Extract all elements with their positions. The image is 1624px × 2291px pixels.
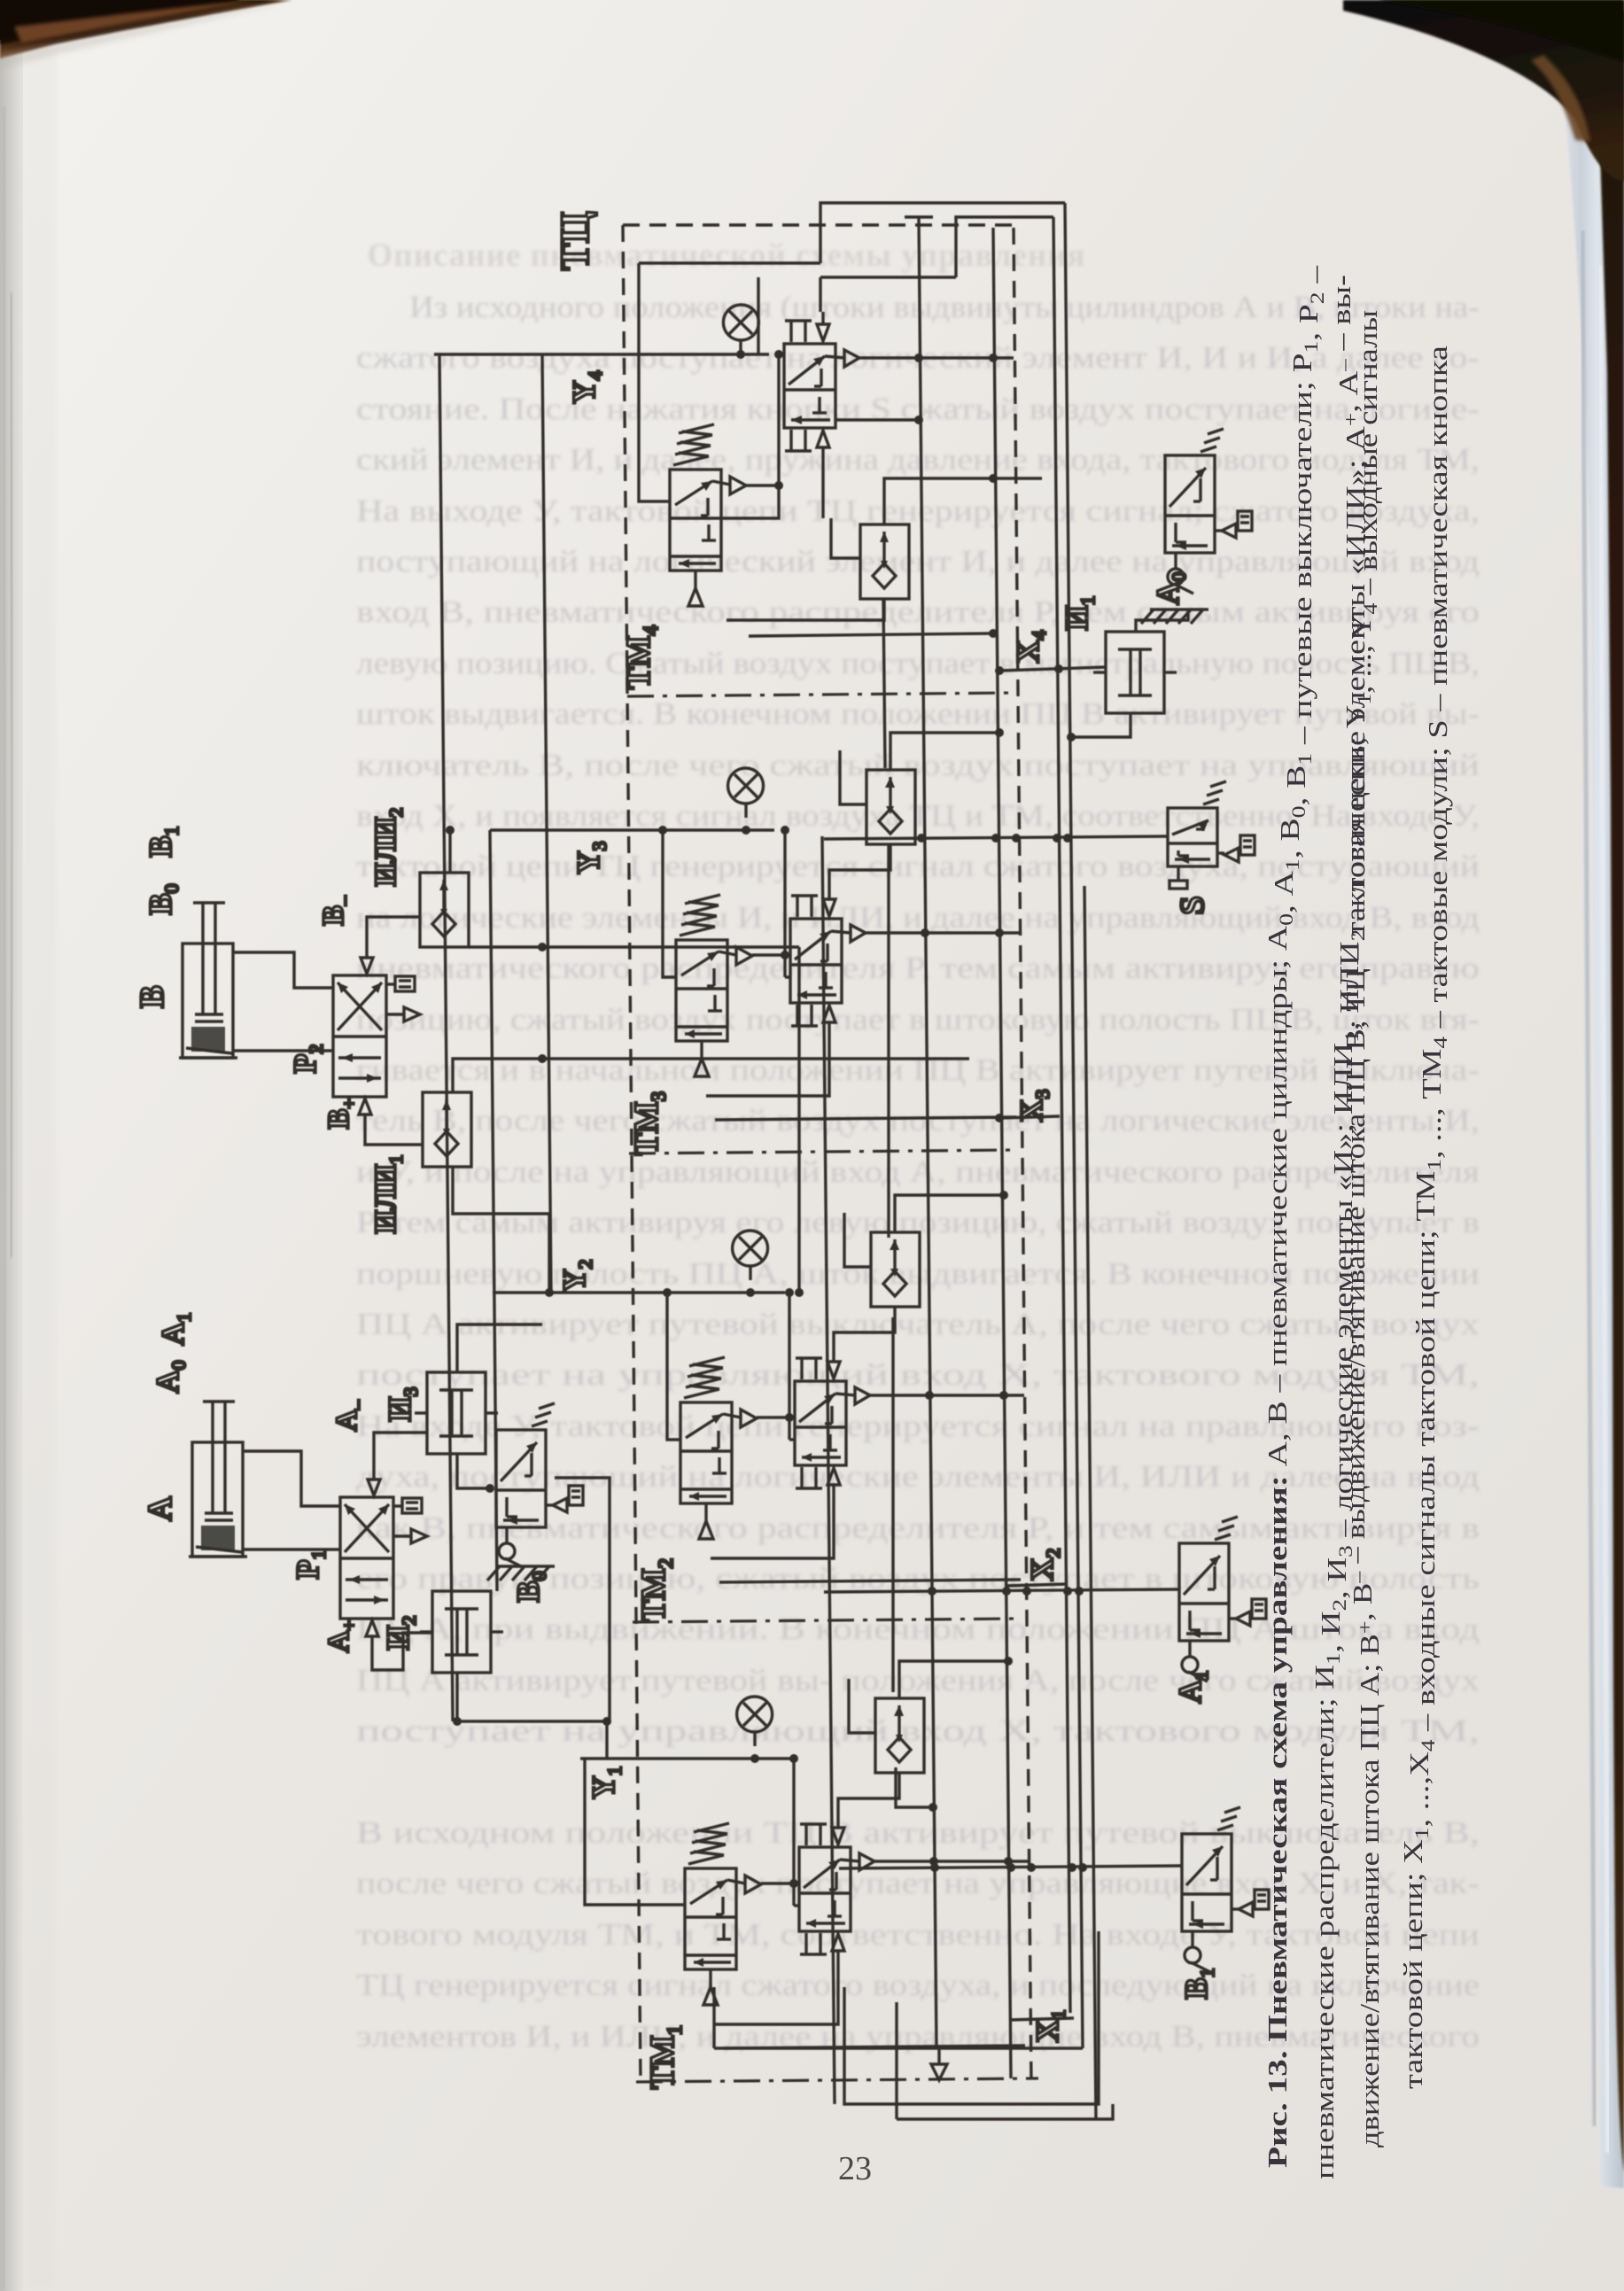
valve TM2 pilot 3/2 (795, 1381, 846, 1465)
svg-text:А: А (142, 1496, 179, 1521)
wire TM4 shuttle top (884, 478, 1042, 524)
top-left wood corner (0, 0, 292, 58)
wire bottom rail 2 (844, 1931, 1099, 2104)
wire ILI2 top (448, 830, 451, 873)
wire module separator TM4/TM3 (627, 693, 1038, 2082)
wire TM3 shuttle bottom to pilot (829, 844, 890, 887)
wire TM3 sv to pv mid (785, 975, 790, 978)
wire B1 link (839, 1866, 1182, 1868)
svg-text:ПЦ А, при выдвижении. В конечн: ПЦ А, при выдвижении. В конечном положен… (356, 1611, 1480, 1646)
ground A0 (1150, 608, 1208, 610)
wire S link (824, 836, 1168, 839)
wire B-plus pilot (365, 1127, 423, 1145)
node Y3 output line (490, 828, 774, 831)
valve TM3 spring 3/2 (676, 940, 727, 1041)
wire TM2 shuttle left (844, 1213, 871, 1267)
wire TM2 sv to pv mid (789, 1438, 795, 1441)
wire B0 riser (555, 1478, 610, 1721)
wire TM3 sv feed (663, 830, 676, 977)
AND element I2 (432, 1591, 491, 1673)
wire TM2 pv bottom pilot drop (711, 1499, 834, 1558)
top-right dark corner block (1343, 0, 1624, 182)
wire TM1 shuttle top (899, 1661, 1008, 1698)
wire bus v2 (490, 830, 497, 1591)
wire TM4 vert (721, 354, 779, 518)
wire TM1 bottom rail (724, 2046, 1025, 2048)
wire ILI2 down bus (797, 947, 800, 1293)
wire module separator TM3/TM2 (629, 1150, 1017, 1153)
wire A-minus pilot (374, 1433, 427, 1467)
wire TM4 bottom rail (749, 633, 993, 636)
svg-text:поступает на управляющий вход: поступает на управляющий вход Х, тактово… (356, 1357, 1480, 1392)
wire bus module column (919, 217, 936, 2048)
left page edge strip (0, 0, 23, 2291)
wire bottom rail 3 (937, 2048, 940, 2064)
wire TM1 sv out arrow (761, 1882, 794, 1884)
right blue page-edges strip (1558, 53, 1624, 2188)
wire A0 to I1 (1136, 611, 1188, 632)
svg-text:В: В (134, 985, 171, 1007)
cylinder B (183, 944, 233, 1058)
wire cyl A top port (243, 1451, 340, 1506)
wire bottom rail 1 (714, 2046, 1083, 2049)
wire TM1 sv to pv mid (794, 1904, 799, 1907)
wire TM4 pv out (859, 356, 1014, 359)
wire TM4 shuttle left (831, 518, 860, 558)
wire TM4 pv mid (836, 418, 919, 421)
wire TM2 shuttle top (895, 1195, 1004, 1232)
wire cyl B bottom port (233, 1049, 333, 1052)
wire X4 link (999, 667, 1106, 671)
svg-text:на логические элементы И, и ИЛ: на логические элементы И, и ИЛИ, и далее… (356, 900, 1480, 935)
wire X1 link (1010, 2018, 1074, 2020)
wire ILI2 out right (469, 945, 799, 948)
wire TM4 pv bottom riser (821, 462, 824, 518)
svg-text:пневматического распределителя: пневматического распределителя Р, тем са… (356, 951, 1480, 985)
wire I3 bottom (457, 1454, 490, 1488)
svg-text:ИЛИ1: ИЛИ1 (369, 1155, 407, 1234)
wire module separator TM2/TM1 (633, 1619, 1021, 1622)
wire shuttle chain 2-1 (891, 1317, 894, 1692)
roller B1 (1191, 1931, 1193, 1947)
wire TM3 vertical drop (783, 830, 786, 977)
lamp indicator Y3 (728, 768, 764, 804)
svg-text:и У, и после на управляющий вх: и У, и после на управляющий вход А, пнев… (356, 1154, 1480, 1189)
wire I2 bottom hook (457, 1673, 610, 1721)
wire Y1 riser (605, 1721, 608, 1759)
valve TM3 pilot 3/2 (790, 919, 842, 1003)
node Y4 output line (434, 353, 769, 355)
lamp indicator Y4 (723, 305, 758, 340)
wire A-plus pilot (372, 1633, 432, 1670)
ground B0 (496, 1565, 555, 1567)
wire TM3 pv out (866, 931, 1020, 934)
svg-text:тактовой цепи ТЦ генерируется: тактовой цепи ТЦ генерируется сигнал сжа… (356, 849, 1480, 883)
valve TM2 spring 3/2 (680, 1402, 732, 1503)
button S actuator (1177, 866, 1179, 881)
node Y1 output line (580, 1757, 794, 1759)
wire bottom drop 2 (895, 2002, 897, 2119)
svg-text:Описание пневматической схемы: Описание пневматической схемы управления (367, 237, 1085, 274)
roller A1 (1188, 1641, 1191, 1657)
wire TM2 shuttle bottom to pilot (834, 1307, 895, 1349)
wire tact-chain outer top (820, 203, 1065, 263)
wire cyl A bottom port (243, 1548, 340, 1550)
wire I1 bottom (1071, 713, 1131, 737)
valve A0 limit switch (1165, 455, 1215, 553)
svg-text:Р, тем самым активируя его лев: Р, тем самым активируя его левую позицию… (356, 1205, 1480, 1239)
OR element ILI2 (420, 873, 469, 947)
wire cyl B top port (233, 952, 333, 988)
exhaust triangle bottom (931, 2064, 947, 2080)
wire bus feedback column (822, 836, 835, 2104)
node TC dashed boundary (623, 225, 1031, 2084)
wire TM3 shuttle top (890, 733, 999, 770)
valve TM4 pilot 3/2 (784, 344, 835, 428)
right dark brown book edge (1559, 11, 1624, 2172)
distributor P1 4/2 (340, 1497, 393, 1619)
AND element I3 (427, 1372, 486, 1454)
wire I3 top (457, 1324, 542, 1372)
wire bus column 2 (993, 228, 1011, 2078)
valve B1 limit switch (1182, 1834, 1232, 1931)
wire A1 link (824, 1589, 1179, 1592)
subtle left vignette (21, 0, 57, 2291)
wire bottom rail 4 (897, 2104, 1113, 2119)
wire TM3 sv out arrow (752, 953, 785, 956)
lamp indicator Y1 (737, 1697, 773, 1732)
shuttle valve TM4 (860, 524, 909, 599)
wire ILI1 top (453, 1059, 969, 1092)
svg-text:тель В, после чего сжатый возд: тель В, после чего сжатый воздух поступа… (356, 1103, 1480, 1138)
wire bus v3 (542, 354, 551, 1293)
OR element ILI1 (423, 1092, 471, 1167)
wire TM3 shuttle left (840, 750, 866, 804)
wire shuttle chain 1-out (896, 1767, 933, 1807)
wire TM2 vertical drop (788, 1293, 790, 1440)
svg-text:поршневую полость ПЦ А, шток в: поршневую полость ПЦ А, шток выдвигается… (356, 1256, 1480, 1291)
wire TM1 shuttle bottom to pilot (838, 1773, 899, 1815)
wire TM2 sv feed (667, 1293, 680, 1440)
wire tact-chain inner top (956, 217, 1053, 277)
wire B-minus pilot (367, 917, 420, 945)
wire ILI1 bottom (453, 1167, 549, 1293)
AND element I1 (1106, 632, 1164, 713)
wire TM3 bottom rail (715, 1117, 1016, 1120)
wire TM1 pv out (874, 1860, 1029, 1862)
roller B0 (505, 1527, 508, 1543)
wire bus right outer low (1084, 886, 1096, 2119)
node Y2 output line (493, 1291, 785, 1293)
cylinder A (192, 1442, 243, 1557)
wire bottom left drop (712, 1987, 715, 2048)
roller A0 (1174, 553, 1177, 569)
svg-text:23: 23 (838, 2150, 872, 2187)
wire TM1 shuttle left (849, 1679, 875, 1733)
svg-text:На входе У, тактовой цепи гене: На входе У, тактовой цепи генерируется с… (356, 1409, 1480, 1443)
wire top feed to TM4 pilot (639, 261, 820, 264)
shuttle valve TM3 (866, 770, 915, 844)
shuttle valve TM1 (875, 1698, 924, 1773)
wire module separator TM1 bottom (636, 2078, 1038, 2082)
valve TM4 spring 3/2 (670, 470, 721, 571)
svg-text:ТЦ: ТЦ (552, 212, 597, 271)
wire TM1 pv bottom pilot drop (715, 1965, 838, 2024)
svg-text:позицию, сжатый воздух поступа: позицию, сжатый воздух поступает в штоко… (356, 1002, 1480, 1037)
valve TM1 spring 3/2 (685, 1868, 736, 1969)
figure caption rotated (1262, 265, 1453, 2179)
svg-text:S: S (1174, 896, 1211, 914)
valve A1 limit switch (1179, 1543, 1229, 1641)
wire TM1 sv feed (585, 1759, 685, 1905)
shuttle valve TM2 (871, 1232, 920, 1307)
wire TM1 vertical drop (792, 1759, 795, 1906)
wire TM4 shuttle bottom (727, 599, 884, 620)
valve S pneumatic button (1168, 808, 1217, 866)
distributor P2 4/2 (333, 975, 386, 1097)
lamp indicator Y2 (733, 1231, 768, 1266)
wire TM3 pv bottom pilot drop (706, 1037, 829, 1096)
wire TM2 sv out arrow (757, 1416, 789, 1418)
wire TM2 bottom rail (719, 1580, 1021, 1582)
faint bleed-through body text (356, 237, 1480, 2054)
wire bus v1 left (439, 354, 453, 1721)
wire TM4 sv out (746, 484, 779, 486)
wire shuttle chain 4-3 (883, 599, 885, 768)
wire shuttle chain 3-2 (887, 843, 890, 1238)
wire TM2 pv out (870, 1394, 1024, 1396)
svg-text:ИЛИ2: ИЛИ2 (369, 808, 407, 887)
wire X2 link (1006, 1584, 1068, 1586)
valve TM1 pilot 3/2 (799, 1847, 851, 1931)
wire X3 link (999, 1116, 1060, 1118)
valve B0 limit switch (496, 1430, 546, 1527)
wire TM4 sv feed (639, 263, 670, 501)
